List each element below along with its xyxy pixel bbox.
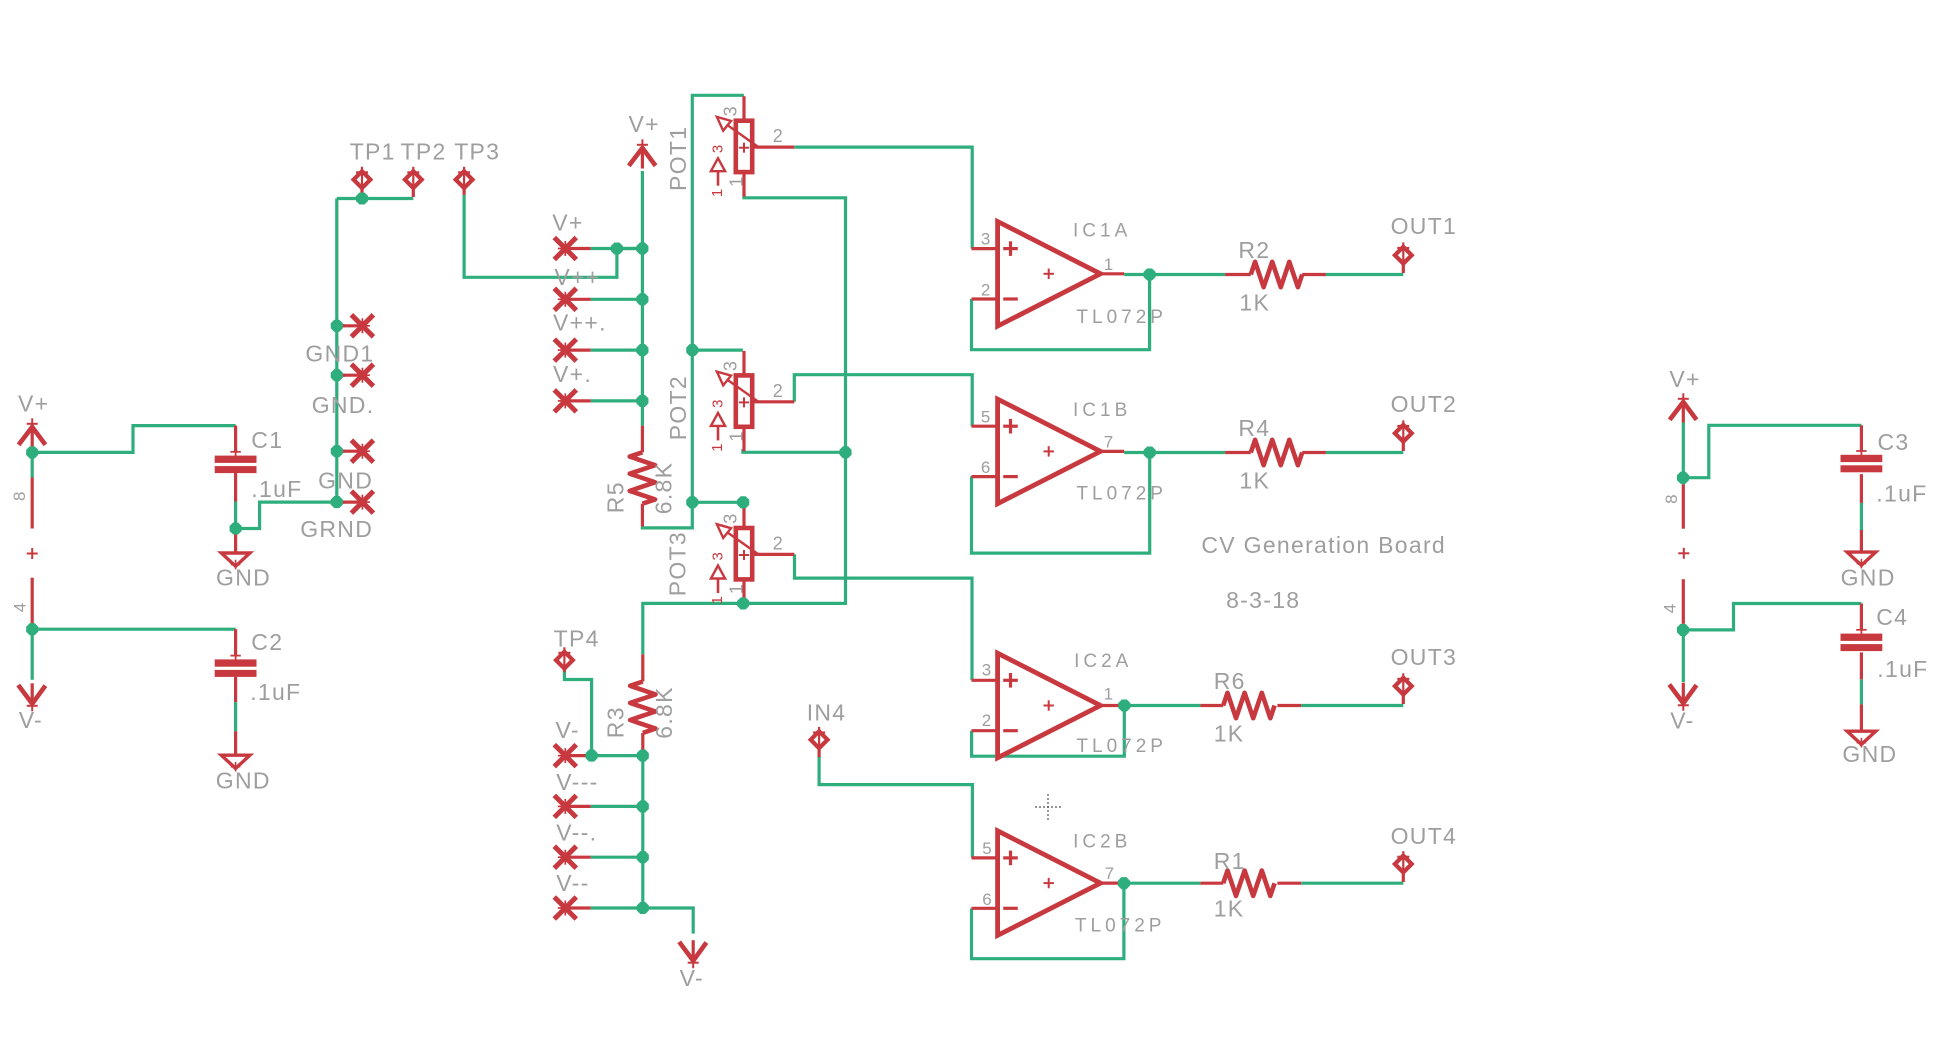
svg-text:8: 8 bbox=[1662, 494, 1681, 503]
svg-text:IC1B: IC1B bbox=[1073, 400, 1131, 421]
svg-text:2: 2 bbox=[981, 281, 991, 300]
svg-text:1: 1 bbox=[1104, 255, 1114, 274]
svg-text:V+: V+ bbox=[18, 391, 49, 417]
svg-text:5: 5 bbox=[982, 839, 992, 858]
svg-text:6: 6 bbox=[981, 458, 991, 477]
svg-text:.1uF: .1uF bbox=[1877, 656, 1928, 682]
svg-text:OUT2: OUT2 bbox=[1391, 391, 1458, 417]
svg-text:R6: R6 bbox=[1214, 668, 1246, 694]
svg-text:TP4: TP4 bbox=[554, 626, 600, 652]
svg-text:GND: GND bbox=[216, 564, 271, 590]
svg-text:1: 1 bbox=[727, 431, 747, 442]
svg-text:POT1: POT1 bbox=[665, 126, 691, 191]
svg-text:V-: V- bbox=[1670, 707, 1694, 733]
svg-text:2: 2 bbox=[773, 534, 784, 554]
svg-text:1: 1 bbox=[1104, 685, 1114, 704]
svg-text:C3: C3 bbox=[1878, 429, 1910, 455]
svg-text:IC2B: IC2B bbox=[1073, 832, 1131, 853]
svg-text:1: 1 bbox=[727, 176, 747, 187]
svg-text:V--.: V--. bbox=[556, 820, 597, 846]
svg-text:2: 2 bbox=[773, 126, 784, 146]
svg-text:1: 1 bbox=[709, 596, 726, 605]
svg-text:.1uF: .1uF bbox=[251, 476, 302, 502]
svg-text:3: 3 bbox=[721, 106, 741, 117]
svg-text:R5: R5 bbox=[602, 481, 628, 513]
svg-text:GND1: GND1 bbox=[305, 341, 374, 367]
svg-text:1K: 1K bbox=[1239, 467, 1270, 493]
svg-text:CV Generation Board: CV Generation Board bbox=[1201, 532, 1446, 558]
svg-text:V++: V++ bbox=[554, 264, 600, 290]
svg-text:TP1: TP1 bbox=[350, 139, 396, 165]
svg-text:R2: R2 bbox=[1238, 237, 1270, 263]
svg-text:V+: V+ bbox=[552, 209, 583, 235]
svg-text:2: 2 bbox=[773, 381, 784, 401]
svg-text:TL072P: TL072P bbox=[1076, 736, 1167, 757]
svg-text:3: 3 bbox=[710, 399, 727, 408]
svg-text:V+: V+ bbox=[629, 111, 660, 137]
svg-text:C1: C1 bbox=[251, 427, 283, 453]
svg-text:V-: V- bbox=[680, 965, 704, 991]
svg-text:IC2A: IC2A bbox=[1074, 651, 1132, 672]
svg-text:3: 3 bbox=[981, 229, 991, 248]
svg-text:C2: C2 bbox=[251, 629, 283, 655]
svg-text:GRND: GRND bbox=[300, 516, 373, 542]
svg-text:V--: V-- bbox=[556, 870, 589, 896]
svg-text:POT3: POT3 bbox=[665, 531, 691, 596]
svg-text:TP3: TP3 bbox=[454, 139, 500, 165]
svg-text:OUT4: OUT4 bbox=[1391, 823, 1458, 849]
svg-text:GND: GND bbox=[318, 467, 373, 493]
svg-text:R3: R3 bbox=[603, 706, 629, 738]
svg-text:OUT3: OUT3 bbox=[1391, 644, 1458, 670]
svg-text:1: 1 bbox=[727, 583, 747, 594]
svg-text:1K: 1K bbox=[1214, 720, 1245, 746]
svg-text:TP2: TP2 bbox=[401, 139, 447, 165]
svg-text:.1uF: .1uF bbox=[250, 679, 301, 705]
svg-text:1: 1 bbox=[709, 188, 726, 197]
svg-text:IC1A: IC1A bbox=[1073, 221, 1131, 242]
svg-text:R1: R1 bbox=[1214, 848, 1246, 874]
svg-text:1K: 1K bbox=[1214, 896, 1245, 922]
svg-text:1K: 1K bbox=[1239, 289, 1270, 315]
svg-text:V+: V+ bbox=[1669, 366, 1700, 392]
svg-text:7: 7 bbox=[1105, 864, 1115, 883]
svg-text:3: 3 bbox=[721, 360, 741, 371]
svg-text:7: 7 bbox=[1104, 432, 1114, 451]
svg-text:6.8K: 6.8K bbox=[651, 686, 677, 739]
svg-text:V-: V- bbox=[556, 717, 580, 743]
svg-text:TL072P: TL072P bbox=[1076, 307, 1167, 328]
svg-text:3: 3 bbox=[721, 513, 741, 524]
svg-text:5: 5 bbox=[981, 408, 991, 427]
svg-text:V---: V--- bbox=[556, 769, 598, 795]
svg-text:4: 4 bbox=[10, 603, 29, 612]
svg-text:GND: GND bbox=[1842, 741, 1897, 767]
svg-text:IN4: IN4 bbox=[807, 700, 847, 726]
svg-text:3: 3 bbox=[982, 661, 992, 680]
svg-text:1: 1 bbox=[709, 443, 726, 452]
svg-text:8: 8 bbox=[10, 492, 29, 501]
svg-text:TL072P: TL072P bbox=[1075, 915, 1166, 936]
svg-text:OUT1: OUT1 bbox=[1391, 213, 1458, 239]
svg-text:V-: V- bbox=[19, 707, 43, 733]
svg-text:TL072P: TL072P bbox=[1076, 483, 1167, 504]
svg-text:2: 2 bbox=[982, 711, 992, 730]
svg-text:6.8K: 6.8K bbox=[651, 462, 677, 515]
svg-text:4: 4 bbox=[1661, 604, 1680, 613]
svg-text:V++.: V++. bbox=[553, 310, 607, 336]
svg-text:GND: GND bbox=[216, 768, 271, 794]
svg-text:POT2: POT2 bbox=[665, 375, 691, 440]
svg-text:GND: GND bbox=[1841, 564, 1896, 590]
svg-text:R4: R4 bbox=[1238, 415, 1270, 441]
svg-text:3: 3 bbox=[710, 144, 727, 153]
svg-text:V+.: V+. bbox=[553, 361, 592, 387]
svg-text:6: 6 bbox=[982, 890, 992, 909]
svg-text:.1uF: .1uF bbox=[1876, 481, 1927, 507]
svg-text:8-3-18: 8-3-18 bbox=[1226, 587, 1300, 613]
svg-text:3: 3 bbox=[710, 552, 727, 561]
svg-text:C4: C4 bbox=[1876, 604, 1908, 630]
svg-text:GND.: GND. bbox=[312, 392, 375, 418]
